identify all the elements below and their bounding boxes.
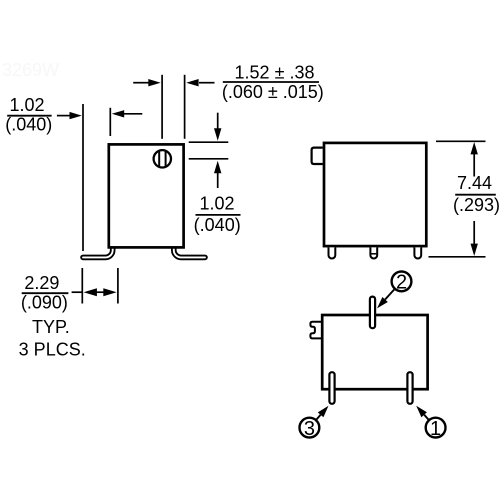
callout 3 leader and arrow — [317, 406, 329, 420]
arrow right toward screw-center line — [133, 79, 161, 86]
svg-text:3269W: 3269W — [2, 60, 59, 80]
extension line: body left edge (x=110) — [109, 108, 111, 136]
pin 1 (bottom right) — [407, 372, 412, 404]
arrow up toward screw centerline — [214, 161, 221, 188]
foot pin 3 (right) — [414, 247, 421, 258]
svg-text:1.02: 1.02 — [9, 95, 44, 115]
svg-text:2: 2 — [396, 272, 407, 294]
side adjuster tab — [312, 148, 323, 164]
svg-text:7.44: 7.44 — [457, 173, 492, 193]
dimension line vertical upper segment — [473, 153, 475, 177]
foot pin 2 inner tick — [371, 253, 377, 255]
pin 3 (bottom left) — [329, 372, 334, 404]
svg-text:2.29: 2.29 — [24, 273, 59, 293]
dim text 7.44/(.293) — [453, 173, 500, 215]
arrow up to top line — [471, 142, 478, 154]
svg-text:(.293): (.293) — [453, 195, 500, 215]
dim text 2.29/(.090) TYP. 3 PLCS. — [19, 273, 86, 359]
extension line: lead toe (x=83) — [82, 104, 84, 251]
adjustment screw circle — [154, 150, 171, 167]
right lead (gull-wing) — [174, 246, 205, 258]
svg-text:(.040): (.040) — [194, 215, 241, 235]
extension line: screw centerline (horizontal) — [189, 158, 229, 160]
svg-text:1.52 ± .38: 1.52 ± .38 — [235, 63, 315, 83]
svg-text:(.090): (.090) — [21, 293, 68, 313]
svg-text:3: 3 — [304, 418, 315, 440]
body outline (bottom view) — [322, 315, 427, 389]
dim text 1.02/(.040) top-left — [5, 95, 52, 134]
svg-text:3 PLCS.: 3 PLCS. — [19, 339, 86, 359]
extension line: body top (horizontal) — [189, 141, 229, 143]
svg-text:TYP.: TYP. — [32, 317, 70, 337]
leader from 2.29 bar to dimension — [72, 291, 83, 293]
extension line: screw center (x=162) — [161, 75, 163, 139]
arrow down toward body-top line — [214, 113, 221, 141]
left lead (gull-wing) — [83, 246, 113, 258]
arrow left toward body-right line — [186, 79, 214, 86]
pin 2 (top) — [370, 297, 375, 329]
svg-text:1: 1 — [430, 418, 441, 440]
svg-text:(.040): (.040) — [5, 114, 52, 134]
callout 1 circle — [426, 418, 446, 440]
dimension line vertical lower segment — [473, 221, 475, 245]
screw slot line left — [158, 151, 160, 167]
callout 2 leader and arrow — [377, 290, 394, 309]
double arrow dimension (2.29) — [84, 288, 117, 296]
arrow right toward lead-toe line — [57, 112, 82, 119]
dim text 1.02/(.040) mid-right — [194, 194, 241, 236]
extension line: bottom dim right (x=117.9) — [117, 268, 119, 304]
foot pin 1 (left) — [329, 247, 336, 258]
side adjuster castellation — [310, 322, 321, 339]
extension line: body right edge (x=184.6) — [184, 75, 186, 139]
extension line: top of body (right view) — [436, 140, 486, 142]
dim text 1.52 ± .38/(.060 ± .015) — [222, 63, 324, 102]
screw slot line right — [165, 151, 167, 167]
callout 3 circle — [300, 418, 320, 440]
foot pin 2 (middle) — [370, 247, 377, 258]
extension line: bottom dim left (x=82.3) — [81, 268, 83, 304]
body outline (front view) — [324, 143, 426, 246]
extension line: bottom of feet (right view) — [429, 256, 486, 258]
arrow left toward body-left line — [112, 110, 143, 117]
callout 1 leader and arrow — [416, 406, 428, 420]
svg-text:1.02: 1.02 — [199, 194, 234, 214]
body outline (side view) — [109, 144, 184, 247]
svg-text:(.060 ± .015): (.060 ± .015) — [222, 82, 324, 102]
arrow down to bottom line — [471, 244, 478, 256]
callout 2 circle — [392, 272, 412, 294]
